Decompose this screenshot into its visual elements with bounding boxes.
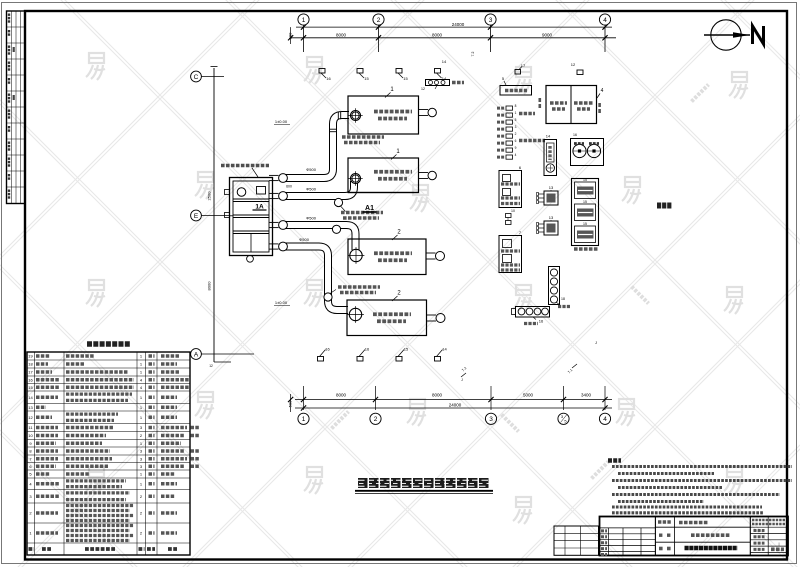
svg-text:14: 14 [442,59,447,64]
svg-text:1±0.00: 1±0.00 [275,300,288,305]
svg-text:8000: 8000 [336,393,347,398]
svg-text:4: 4 [515,153,517,157]
svg-text:15: 15 [583,178,587,182]
svg-text:4: 4 [601,88,604,94]
svg-text:8000: 8000 [432,33,443,38]
svg-text:15: 15 [583,200,587,204]
svg-text:24000: 24000 [452,22,465,27]
svg-text:3: 3 [489,416,493,423]
svg-text:16: 16 [325,347,330,352]
svg-text:6: 6 [515,139,517,143]
svg-text:2: 2 [374,416,378,423]
svg-text:A: A [194,351,199,358]
svg-text:16: 16 [28,377,33,382]
svg-text:Φ500: Φ500 [306,187,317,192]
svg-text:13: 13 [549,215,554,220]
svg-text:18: 18 [561,297,565,301]
svg-text:1A: 1A [255,203,264,210]
svg-text:C: C [194,74,199,81]
svg-text:5: 5 [515,118,517,122]
svg-text:12: 12 [421,87,425,91]
svg-text:19: 19 [28,354,33,359]
svg-text:1±0.00: 1±0.00 [275,119,288,124]
svg-text:15: 15 [364,76,369,81]
svg-text:Φ500: Φ500 [306,167,317,172]
svg-text:5000: 5000 [523,393,534,398]
svg-text:14: 14 [442,347,447,352]
svg-text:24000: 24000 [449,402,462,407]
svg-text:16: 16 [365,347,370,352]
svg-text:1: 1 [302,416,306,423]
svg-text:9000: 9000 [542,33,553,38]
svg-text:3: 3 [515,125,517,129]
svg-text:17: 17 [28,370,33,375]
svg-text:18: 18 [28,362,33,367]
svg-text:12: 12 [571,62,576,67]
svg-text:A1: A1 [365,205,374,212]
svg-text:4: 4 [603,416,607,423]
svg-text:Φ500: Φ500 [306,216,317,221]
svg-text:15: 15 [583,222,587,226]
svg-text:14: 14 [546,134,551,139]
svg-text:1: 1 [515,111,517,115]
svg-text:10: 10 [28,433,33,438]
svg-text:3: 3 [489,17,493,24]
svg-text:8: 8 [515,104,517,108]
svg-text:500: 500 [288,32,293,39]
svg-text:16: 16 [573,133,577,137]
svg-text:15: 15 [403,76,408,81]
svg-text:10: 10 [511,209,515,213]
svg-text:2500: 2500 [207,191,212,201]
svg-text:8000: 8000 [207,281,212,291]
svg-text:15: 15 [28,385,33,390]
svg-text:4: 4 [603,17,607,24]
svg-text:13: 13 [28,405,33,410]
svg-text:2: 2 [377,17,381,24]
svg-text:16: 16 [326,76,331,81]
svg-text:|: | [778,541,779,546]
svg-text:3400: 3400 [581,393,592,398]
svg-text:600: 600 [286,185,292,189]
svg-text:12: 12 [209,364,213,368]
svg-text:8000: 8000 [336,33,347,38]
svg-text:2: 2 [515,132,517,136]
svg-text:8000: 8000 [432,393,443,398]
svg-text:15: 15 [404,347,409,352]
svg-text:J: J [595,340,597,345]
svg-text:13: 13 [549,185,554,190]
svg-text:J: J [461,378,463,382]
svg-text:500: 500 [288,400,293,407]
svg-text:E: E [194,213,199,220]
svg-text:9: 9 [515,146,517,150]
svg-text:Φ500: Φ500 [299,237,310,242]
svg-text:7.2: 7.2 [471,52,475,57]
svg-text:14: 14 [28,395,33,400]
svg-text:16: 16 [539,319,544,324]
svg-text:12: 12 [28,415,33,420]
svg-text:1: 1 [302,17,306,24]
